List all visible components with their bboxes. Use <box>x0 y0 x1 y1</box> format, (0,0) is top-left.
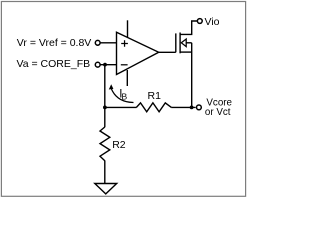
transistor Q1 drain wire <box>180 21 197 34</box>
svg-text:R1: R1 <box>148 90 162 102</box>
wire op-amp output to MOSFET gate <box>159 51 176 53</box>
svg-text:R2: R2 <box>112 139 126 151</box>
terminal Vr <box>95 40 100 45</box>
transistor Q1 body wire <box>186 42 192 44</box>
transistor Q1 channel line <box>179 33 181 54</box>
transistor Q1 gate line <box>175 33 177 52</box>
border frame <box>1 2 245 197</box>
wire Va to op-amp - input <box>100 64 116 66</box>
op-amp - symbol <box>121 64 128 66</box>
junction dot node B <box>103 106 107 110</box>
wire node B to R1 <box>105 106 137 108</box>
transistor Q1 source wire <box>180 51 192 53</box>
op-amp top power pin <box>127 20 129 37</box>
junction dot node C <box>190 106 194 110</box>
wire R1 to Vcore terminal <box>171 106 195 108</box>
terminal Vcore <box>197 105 202 110</box>
svg-text:Vio: Vio <box>205 16 220 28</box>
wire node B down to R2 <box>104 107 106 127</box>
wire Vr to op-amp + input <box>100 42 116 44</box>
wire node A down to node B <box>104 65 106 108</box>
op-amp + symbol <box>121 40 128 47</box>
terminal Vio <box>197 19 202 24</box>
svg-text:or Vct: or Vct <box>205 107 231 118</box>
resistor R2 <box>100 127 110 161</box>
op-amp U1 <box>117 32 159 74</box>
op-amp bottom power pin <box>126 70 128 86</box>
current arrow IB <box>111 89 133 103</box>
svg-text:Vr = Vref = 0.8V: Vr = Vref = 0.8V <box>17 37 92 49</box>
junction dot node A <box>103 63 107 67</box>
wire R2 to ground <box>104 161 106 184</box>
transistor Q1 body arrow <box>181 39 186 47</box>
ground <box>95 184 117 194</box>
svg-text:Va = CORE_FB: Va = CORE_FB <box>17 58 91 70</box>
resistor R1 <box>136 103 171 112</box>
wire MOSFET source down to Vcore node <box>191 43 193 108</box>
terminal Va <box>95 62 100 67</box>
